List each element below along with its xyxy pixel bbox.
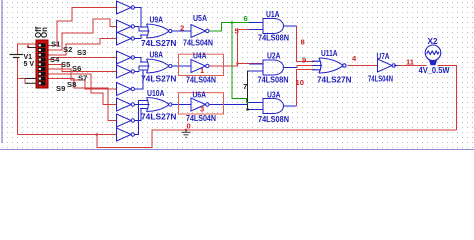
wire net 1 label area U4A output to U1A and U2A (210, 30, 264, 67)
svg-text:74LS27N: 74LS27N (141, 112, 177, 122)
wires inverter outputs to NOR inputs blue (135, 8, 398, 135)
label S7 (78, 74, 87, 83)
wire U3A out stub (284, 105, 297, 107)
value 74LS08N U1A (258, 33, 289, 43)
value 74LS04N U5A (183, 38, 213, 48)
wire net 7 U6A out (210, 104, 248, 106)
junction net 0 at ground (185, 129, 187, 131)
value 74LS27N U11A (317, 74, 352, 84)
label S8 (67, 80, 76, 89)
svg-text:7: 7 (243, 82, 247, 91)
inverter T9 (117, 128, 135, 141)
nor gate U10A (140, 98, 172, 112)
wire T5 out (135, 66, 146, 72)
inverter U7A (378, 59, 396, 72)
wire net 3 U10A to U6A (172, 104, 191, 106)
value 74LS04N U6A (186, 113, 216, 123)
svg-text:8: 8 (301, 38, 305, 47)
svg-text:9: 9 (302, 56, 306, 65)
value 74LS27N U9A (141, 38, 177, 48)
inverter T6 (117, 83, 135, 96)
wire S3 (48, 39, 117, 55)
DIP marking On (40, 27, 49, 38)
label net 3 (200, 105, 204, 114)
wire S1 (48, 8, 117, 46)
svg-text:4V_0.5W: 4V_0.5W (419, 65, 450, 75)
label U5A (193, 13, 207, 23)
label U7A (377, 51, 390, 61)
inverter T3 (117, 32, 135, 45)
wire U7A out stub (394, 65, 398, 67)
sheet border left (1, 0, 3, 143)
junction net 0 at T9 branch (96, 133, 98, 135)
label U1A (266, 9, 280, 19)
svg-text:74LS27N: 74LS27N (317, 74, 352, 84)
label U4A (193, 51, 207, 61)
label U11A (321, 48, 338, 58)
svg-text:74LS08N: 74LS08N (258, 75, 289, 85)
DIP pin stub top left (28, 47, 36, 49)
wire DIP pin stub top (27, 44, 29, 48)
svg-text:S8: S8 (67, 80, 76, 89)
and gate U1A (249, 19, 284, 34)
wire net 11 to lamp (398, 65, 427, 67)
wire net 7 black verticals (248, 71, 264, 110)
label S5 (61, 60, 71, 69)
wire net 0 bottom run to T9 input (17, 134, 116, 136)
nor gate U9A (140, 24, 172, 38)
wire S8 (48, 79, 117, 121)
wire U1A out stub (284, 25, 297, 27)
lamp X2 (425, 45, 441, 65)
svg-text:74LS27N: 74LS27N (141, 38, 177, 48)
wire T7 out (135, 104, 146, 106)
wire T8 out (135, 109, 146, 121)
DIP pin stub row9 left (25, 82, 36, 84)
svg-text:S6: S6 (72, 64, 81, 73)
wire T9 out (135, 101, 146, 135)
wire S2 (48, 19, 117, 50)
value 74LS04N U4A (186, 75, 216, 85)
label net 11 (406, 58, 415, 67)
inverter U5A (186, 25, 209, 38)
wire net 9 U2A out to U11A in2 (297, 66, 315, 68)
svg-text:X2: X2 (428, 36, 438, 46)
svg-text:V1: V1 (24, 54, 33, 61)
wire net 6 green U5A out (210, 23, 264, 103)
svg-text:74LS27N: 74LS27N (141, 74, 177, 84)
svg-text:U1A: U1A (266, 9, 280, 19)
junction net 6 (231, 21, 233, 23)
svg-text:U2A: U2A (267, 51, 281, 61)
svg-text:U10A: U10A (147, 88, 165, 98)
svg-text:S9: S9 (56, 84, 65, 93)
label net 8 (301, 38, 305, 47)
value 74LS27N U10A (141, 112, 177, 122)
label S6 (72, 64, 81, 73)
svg-text:74LS04N: 74LS04N (368, 73, 393, 83)
DIP switch S1-S9 package (36, 40, 48, 88)
label X2 (428, 36, 438, 46)
wire net 0 dip under T9 (97, 130, 457, 148)
svg-text:U6A: U6A (193, 90, 207, 100)
svg-text:5 V: 5 V (24, 61, 35, 68)
wire net 5 branch to U2A input 1 (238, 63, 264, 65)
wire net 8 U1A out down to U11A in1 (284, 26, 316, 62)
svg-text:2: 2 (180, 23, 184, 32)
label S2 (63, 45, 72, 54)
label net 2 (180, 23, 184, 32)
svg-text:U8A: U8A (150, 49, 164, 59)
inverter T5 (117, 65, 135, 78)
and gate U2A (249, 60, 284, 75)
wire DIP left pins bus (17, 79, 25, 84)
wire net 1 U8A to U4A (172, 65, 191, 67)
svg-text:74LS08N: 74LS08N (258, 114, 289, 124)
label net 1 (200, 66, 205, 75)
svg-text:U4A: U4A (193, 51, 207, 61)
label net 5 (235, 27, 240, 36)
battery label V1 (24, 54, 33, 61)
junction net 5 branch (236, 62, 238, 64)
label U9A (150, 14, 164, 24)
inverter T7 (117, 98, 135, 111)
svg-text:S1: S1 (51, 40, 61, 49)
and gate U3A (249, 99, 284, 114)
svg-text:0: 0 (187, 122, 191, 131)
wire U2A out stub (284, 67, 298, 69)
svg-text:74LS08N: 74LS08N (258, 33, 289, 43)
value 4V_0.5W (419, 65, 450, 75)
svg-text:S7: S7 (78, 74, 87, 83)
inverter T8 (117, 114, 135, 127)
wire S7 (48, 74, 117, 105)
wire S6 (48, 69, 117, 89)
battery value 5 V (24, 61, 35, 68)
label net 9 (302, 56, 306, 65)
label U10A (147, 88, 165, 98)
value 74LS04N U7A (368, 73, 393, 83)
nor gate U11A (312, 58, 346, 73)
wire T4 out (135, 58, 146, 63)
wire net 4 U11A out to U7A (348, 65, 378, 67)
svg-text:S3: S3 (77, 48, 86, 57)
sheet border bottom (0, 149, 474, 151)
svg-text:6: 6 (244, 14, 248, 23)
DIP pin stub row8 left (25, 78, 36, 80)
inverter U4A (186, 60, 209, 73)
battery V1 (10, 55, 24, 58)
wire net 10 U3A out up to U11A in3 (297, 70, 316, 107)
value 74LS08N U2A (258, 75, 289, 85)
nor gate U8A (140, 59, 172, 73)
wire net 2 U9A to U5A (172, 30, 191, 32)
svg-text:U3A: U3A (267, 90, 281, 100)
inverter T1 (117, 1, 135, 14)
value 74LS08N U3A (258, 114, 289, 124)
svg-text:S2: S2 (63, 45, 72, 54)
svg-text:74LS04N: 74LS04N (186, 75, 216, 85)
wire net 0 lamp return up (438, 66, 457, 130)
label U2A (267, 51, 281, 61)
value 74LS27N U8A (141, 74, 177, 84)
wire T6 out (135, 70, 146, 89)
inverter T4 (117, 51, 135, 64)
selection box U4A (179, 54, 224, 75)
label net 10 (296, 78, 304, 87)
label U3A (267, 90, 281, 100)
wire S5 (48, 64, 117, 71)
junction net 7 (246, 108, 248, 110)
DIP marking Off (34, 26, 43, 38)
junction battery top (27, 46, 29, 48)
label net 6 (244, 14, 248, 23)
label S1 (51, 40, 61, 49)
svg-text:S4: S4 (50, 55, 60, 64)
ground 0 symbol (182, 130, 191, 138)
label S9 (56, 84, 65, 93)
svg-text:74LS04N: 74LS04N (183, 38, 213, 48)
label net 4 (352, 54, 357, 63)
label S3 (77, 48, 86, 57)
svg-text:U11A: U11A (321, 48, 338, 58)
wire T2 out (135, 27, 146, 32)
svg-text:U7A: U7A (377, 51, 390, 61)
svg-text:11: 11 (406, 58, 415, 67)
wire net 0 battery minus down (16, 58, 18, 135)
svg-text:On: On (40, 27, 49, 38)
label U8A (150, 49, 164, 59)
wire battery plus to DIP common (17, 44, 36, 54)
svg-text:10: 10 (296, 78, 304, 87)
inverter U6A (186, 98, 209, 111)
wire S4 (48, 58, 117, 60)
svg-text:S5: S5 (61, 60, 71, 69)
svg-text:3: 3 (200, 105, 204, 114)
label net 7 (243, 82, 247, 91)
inverter T2 (117, 20, 135, 33)
wire T1 out (135, 8, 146, 28)
label U6A (193, 90, 207, 100)
svg-text:U9A: U9A (150, 14, 164, 24)
label net 0 (187, 122, 191, 131)
selection box U6A (179, 93, 224, 114)
wire T3 out (135, 35, 146, 39)
svg-text:U5A: U5A (193, 13, 207, 23)
label S4 (50, 55, 60, 64)
